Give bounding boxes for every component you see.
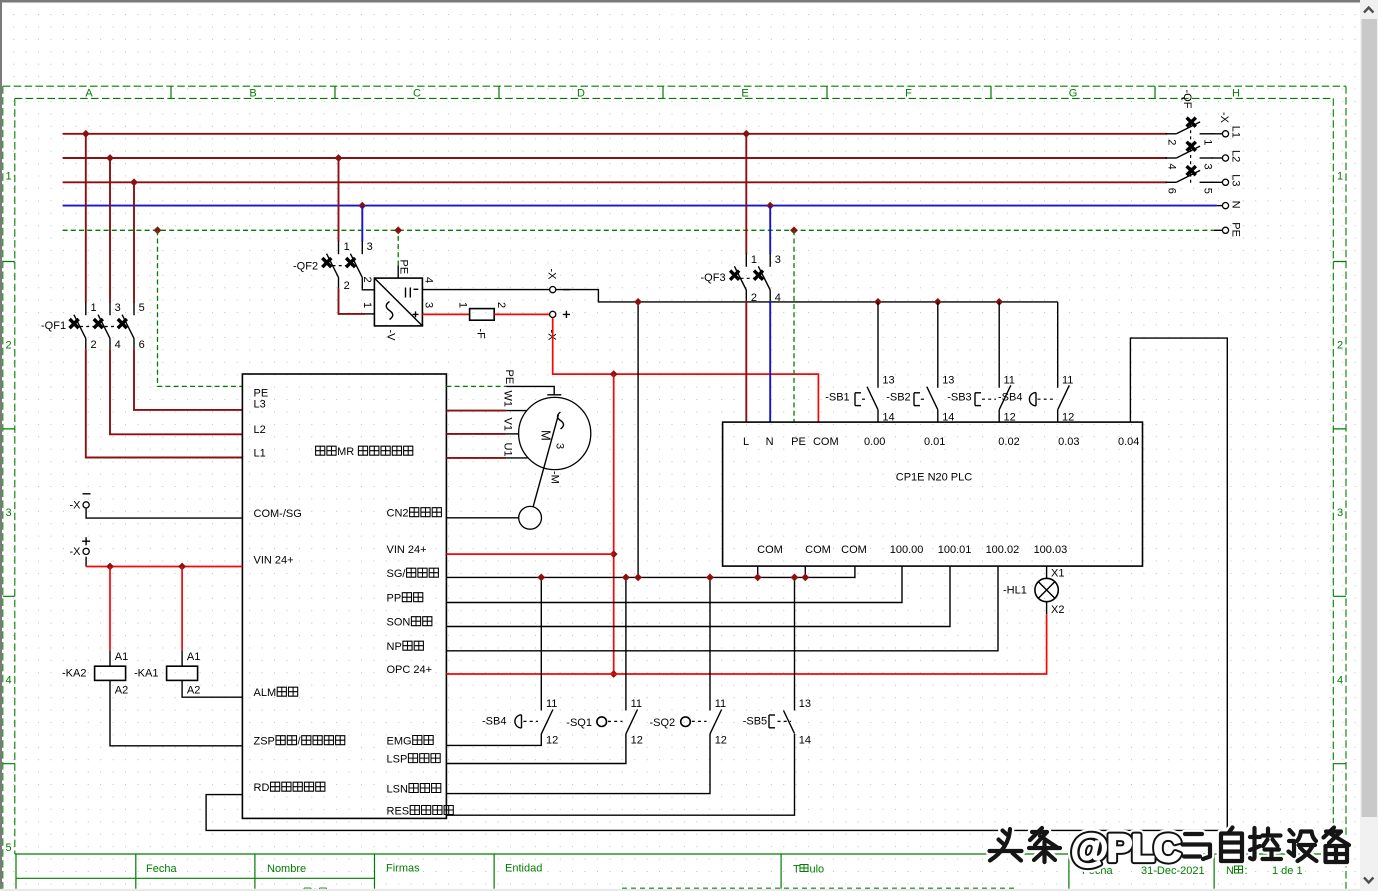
junction bus N / QF3 — [766, 202, 774, 210]
wire servo V1 — [446, 433, 506, 435]
watermark — [990, 828, 1350, 863]
svg-text:3: 3 — [554, 443, 566, 449]
svg-text:LSN: LSN — [387, 783, 408, 795]
svg-text:11: 11 — [546, 698, 557, 710]
svg-text:100.02: 100.02 — [986, 544, 1020, 556]
svg-text:A2: A2 — [115, 685, 128, 697]
svg-text:12: 12 — [546, 735, 558, 747]
svg-text:L2: L2 — [254, 424, 266, 436]
relay coil KA1 — [167, 666, 198, 680]
svg-text:L1: L1 — [1230, 126, 1242, 138]
junction row/SB1 — [874, 298, 882, 306]
junction SG/COM2 — [801, 574, 809, 582]
svg-text:ALM: ALM — [254, 687, 277, 699]
wire QF2 pole2 to V pin2 — [362, 288, 374, 290]
wire PE to servo — [158, 230, 243, 386]
svg-text:ulo: ulo — [810, 864, 825, 876]
V box AC symbol — [386, 302, 393, 320]
svg-text:SG/: SG/ — [387, 568, 407, 580]
main switch QF pole 1 — [1166, 118, 1213, 134]
svg-text:-SB5: -SB5 — [743, 716, 767, 728]
svg-text:X1: X1 — [1051, 568, 1064, 580]
breaker QF2 pole 1 wire top — [338, 158, 340, 242]
window bottom edge — [0, 889, 1360, 891]
column divider ticks — [171, 86, 1155, 98]
junction bus PE drop PLC — [790, 226, 798, 234]
svg-text:-QF2: -QF2 — [293, 261, 318, 273]
wire X minus to SB row — [556, 290, 1058, 302]
junction bus L3 / QF1 — [130, 178, 138, 186]
svg-text:2: 2 — [91, 339, 97, 351]
junction X plus riser — [610, 370, 618, 378]
wire SG row — [446, 566, 855, 577]
junction SG/SQ2 — [706, 574, 714, 582]
scrollbar thumb — [1362, 19, 1378, 817]
svg-text:4: 4 — [6, 675, 12, 687]
svg-text:13: 13 — [882, 375, 894, 387]
svg-text:V1: V1 — [502, 418, 514, 431]
wire servo PE to motor — [446, 385, 506, 387]
breaker QF1 pole 3 — [118, 302, 134, 349]
svg-text:COM: COM — [805, 544, 831, 556]
wire LSP row — [446, 734, 626, 764]
lamp HL1 stub X1 — [1046, 566, 1048, 578]
svg-text:-X: -X — [545, 330, 557, 342]
svg-text:3: 3 — [115, 302, 121, 314]
svg-text:@PLC: @PLC — [1071, 828, 1181, 870]
svg-text:W1: W1 — [502, 391, 514, 408]
row divider ticks right — [1333, 262, 1346, 764]
svg-text:0.02: 0.02 — [998, 436, 1019, 448]
svg-text:5: 5 — [1201, 188, 1213, 194]
wire PP row — [446, 566, 902, 602]
svg-text:1: 1 — [344, 241, 350, 253]
junction X row / riser — [634, 298, 642, 306]
svg-text:2: 2 — [6, 340, 12, 352]
wire SON row — [446, 566, 950, 626]
svg-text:L3: L3 — [1230, 174, 1242, 186]
svg-text:C: C — [413, 88, 421, 100]
svg-text:0.01: 0.01 — [924, 436, 945, 448]
red riser 24V — [613, 374, 615, 674]
svg-text:Entidad: Entidad — [505, 863, 542, 875]
svg-text:A2: A2 — [187, 685, 200, 697]
junction VIN/KA2 — [106, 563, 114, 571]
svg-text:N: N — [1230, 201, 1242, 209]
servo drive box — [242, 374, 446, 818]
svg-text:2: 2 — [1337, 340, 1343, 352]
svg-text:11: 11 — [631, 698, 642, 710]
bus N — [63, 205, 1217, 207]
wire X to COM-/SG — [86, 509, 242, 518]
svg-text:6: 6 — [1166, 188, 1178, 194]
window left border — [0, 0, 2, 891]
terminal X L1 — [1222, 131, 1228, 137]
svg-text:L: L — [743, 436, 749, 448]
svg-text:14: 14 — [799, 735, 811, 747]
junction VIN/KA1 — [178, 563, 186, 571]
svg-text:1: 1 — [456, 302, 468, 308]
svg-text:3: 3 — [6, 507, 12, 519]
wire servo U1 — [446, 457, 506, 459]
svg-text:VIN 24+: VIN 24+ — [387, 544, 427, 556]
svg-text:SON: SON — [387, 617, 411, 629]
breaker QF1 pole 2 — [94, 302, 110, 349]
svg-text:PE: PE — [1230, 222, 1242, 237]
junction bus L1 / QF1 — [82, 130, 90, 138]
junction riser/OPC — [610, 670, 618, 678]
svg-text:A1: A1 — [115, 651, 128, 663]
QF3 linkage — [741, 277, 765, 279]
svg-text:1: 1 — [91, 302, 97, 314]
svg-text:-X: -X — [70, 546, 82, 558]
svg-text:T: T — [793, 864, 800, 876]
svg-text:4: 4 — [422, 277, 434, 283]
svg-text:4: 4 — [1337, 675, 1343, 687]
svg-text:3: 3 — [1201, 164, 1213, 170]
motor PE bar — [547, 394, 561, 396]
junction SG / riser — [634, 574, 642, 582]
wire EMG row — [446, 734, 541, 746]
breaker QF1 pole 1 wire top — [85, 134, 87, 302]
svg-text:100.01: 100.01 — [938, 544, 972, 556]
svg-text:100.03: 100.03 — [1034, 544, 1068, 556]
junction riser/VIN — [610, 550, 618, 558]
svg-text:L3: L3 — [254, 399, 266, 411]
main switch QF pole 2 — [1166, 142, 1213, 158]
wire to KA1 coil — [181, 567, 183, 651]
svg-text:-SB3: -SB3 — [947, 392, 971, 404]
svg-text:D: D — [577, 88, 585, 100]
svg-text:X2: X2 — [1051, 604, 1064, 616]
plus sign left — [82, 537, 90, 545]
svg-text:2: 2 — [751, 292, 757, 304]
scrollbar up arrow — [1364, 8, 1373, 13]
wire X plus to PLC COM — [553, 318, 819, 423]
wire servo W1 — [446, 410, 506, 412]
svg-text:Nombre: Nombre — [267, 863, 306, 875]
svg-text:-SB1: -SB1 — [825, 392, 849, 404]
power supply V box — [374, 278, 422, 326]
svg-text:-V: -V — [385, 330, 397, 342]
wire V pin4 to terminal X minus — [422, 289, 550, 291]
terminal X plus left — [83, 548, 89, 554]
PLC COM stub 2 — [804, 566, 806, 577]
svg-text:EMG: EMG — [387, 735, 412, 747]
svg-text:-QF1: -QF1 — [41, 320, 66, 332]
encoder circle — [519, 506, 542, 529]
svg-text:0.04: 0.04 — [1118, 436, 1139, 448]
title block lines — [15, 854, 1346, 878]
svg-text:Fecha: Fecha — [146, 863, 177, 875]
wire KA2 to ZSP — [110, 680, 242, 745]
svg-text:N: N — [766, 436, 774, 448]
breaker QF1 pole 1 — [70, 302, 86, 349]
svg-text:F: F — [905, 88, 912, 100]
terminal X minus — [550, 287, 556, 293]
svg-text:MR: MR — [337, 446, 354, 458]
wire PLC 0.04 loop to servo RD — [206, 338, 1227, 830]
svg-text:COM: COM — [841, 544, 867, 556]
SG drop to SQ1 — [625, 577, 627, 710]
junction bus L2 / QF2 — [335, 154, 343, 162]
svg-text:1: 1 — [6, 171, 12, 183]
svg-text::: : — [1245, 865, 1248, 877]
bus PE — [63, 229, 1214, 231]
svg-text:U1: U1 — [502, 443, 514, 457]
svg-text:ZSP: ZSP — [254, 736, 275, 748]
svg-text:-SB2: -SB2 — [886, 392, 910, 404]
svg-text:13: 13 — [799, 698, 811, 710]
junction bus N / QF2 — [358, 202, 366, 210]
wire QF1 pole1 to servo L1 — [86, 349, 243, 457]
svg-text:-SQ1: -SQ1 — [566, 717, 592, 729]
svg-text:5: 5 — [6, 842, 12, 854]
junction SG/SQ1 — [622, 574, 630, 582]
riser X- to SG row — [637, 302, 639, 578]
svg-text:2: 2 — [495, 302, 507, 308]
V box DC symbol — [405, 288, 407, 298]
svg-text:1: 1 — [1201, 139, 1213, 145]
junction row/SB3 — [995, 298, 1003, 306]
wire KA1 to ALM — [182, 680, 242, 697]
breaker QF3 pole 2 wire top — [769, 206, 771, 255]
svg-text:N: N — [1226, 865, 1234, 877]
svg-text:13: 13 — [942, 375, 954, 387]
fuse F — [422, 313, 469, 315]
svg-text:PP: PP — [387, 593, 402, 605]
junction bus L1 / QF3 — [742, 130, 750, 138]
V box minus — [414, 288, 419, 290]
svg-text:-SB4: -SB4 — [482, 716, 506, 728]
wire X plus to VIN24 — [85, 557, 87, 567]
svg-text:-M: -M — [549, 471, 561, 484]
QF1 linkage — [80, 326, 128, 328]
wire QF2 pole1 to V pin1 — [339, 288, 366, 314]
breaker QF3 pole 1 — [730, 253, 746, 300]
wire PE to PLC — [793, 230, 795, 422]
motor label tilde — [558, 412, 564, 429]
svg-text:E: E — [741, 88, 748, 100]
svg-text:COM: COM — [813, 436, 839, 448]
svg-text:-SB4: -SB4 — [998, 392, 1022, 404]
svg-text:L1: L1 — [254, 447, 266, 459]
junction row/SB2 — [934, 298, 942, 306]
svg-text:12: 12 — [715, 735, 727, 747]
breaker QF1 pole 3 wire top — [133, 182, 135, 302]
svg-text:100.00: 100.00 — [890, 544, 924, 556]
svg-text:NP: NP — [387, 641, 402, 653]
svg-text:RD: RD — [254, 782, 270, 794]
svg-text:3: 3 — [422, 302, 434, 308]
svg-text:2: 2 — [344, 280, 350, 292]
svg-text:VIN 24+: VIN 24+ — [254, 554, 294, 566]
wire servo CN2 to encoder — [446, 517, 518, 519]
wire LSN row — [446, 734, 710, 794]
svg-text:11: 11 — [1062, 375, 1073, 387]
breaker QF3 pole 2 — [754, 253, 770, 300]
junction bus PE / V — [394, 226, 402, 234]
svg-text:4: 4 — [115, 339, 121, 351]
svg-text:5: 5 — [139, 302, 145, 314]
svg-text:0.03: 0.03 — [1058, 436, 1079, 448]
wire NP row — [446, 566, 998, 651]
svg-text:L2: L2 — [1230, 150, 1242, 162]
svg-text:PE: PE — [791, 436, 806, 448]
QF2 linkage — [333, 265, 357, 267]
lamp HL1 — [1035, 578, 1058, 601]
wire RES row — [446, 734, 794, 815]
V box PE stub — [397, 266, 399, 279]
svg-text:11: 11 — [715, 698, 726, 710]
svg-text:3: 3 — [367, 241, 373, 253]
bus L1 — [63, 133, 1167, 135]
SG drop to SB5 — [794, 577, 796, 710]
svg-text:4: 4 — [775, 292, 781, 304]
bus L3 — [63, 181, 1167, 183]
svg-text:6: 6 — [139, 339, 145, 351]
scrollbar down arrow — [1364, 878, 1373, 883]
breaker QF1 pole 2 wire top — [109, 158, 111, 302]
motor M circle — [519, 397, 591, 469]
svg-text:1: 1 — [361, 302, 373, 308]
svg-text:PE: PE — [503, 370, 515, 385]
svg-text:LSP: LSP — [387, 753, 408, 765]
svg-text:OPC 24+: OPC 24+ — [387, 664, 433, 676]
svg-text:B: B — [249, 88, 256, 100]
svg-text:12: 12 — [631, 735, 643, 747]
row divider ticks left — [3, 262, 15, 764]
breaker QF2 pole 1 — [322, 241, 338, 288]
pushbutton SB2 NO to PLC 0.01 — [937, 302, 939, 422]
lamp HL1 stub X2 — [1046, 602, 1048, 614]
svg-text:-SQ2: -SQ2 — [650, 717, 676, 729]
pushbutton SB4 NC to PLC 0.03 — [1057, 302, 1059, 422]
svg-text:4: 4 — [1166, 164, 1178, 170]
motor shaft line — [530, 415, 558, 518]
svg-text:1 de 1: 1 de 1 — [1272, 865, 1303, 877]
svg-text:CN2: CN2 — [387, 508, 409, 520]
terminal N — [1217, 205, 1223, 207]
minus sign left — [83, 493, 91, 495]
junction SG/COM1 — [754, 574, 762, 582]
junction bus L2 / QF1 — [106, 154, 114, 162]
breaker QF2 pole 2 wire top — [361, 206, 363, 242]
svg-text:-F: -F — [474, 329, 486, 340]
junction bus PE drop left — [154, 226, 162, 234]
junction SG/SB4 — [537, 574, 545, 582]
main switch linkage — [1190, 124, 1192, 183]
wire QF3 pole2 to PLC N — [769, 301, 771, 422]
svg-text:11: 11 — [1004, 375, 1015, 387]
wire VIN 24+ row — [446, 553, 613, 555]
vertical scrollbar track — [1360, 0, 1378, 891]
svg-text:COM: COM — [757, 544, 783, 556]
V box plus — [413, 311, 419, 317]
svg-text:-HL1: -HL1 — [1003, 585, 1027, 597]
terminal X L3 — [1222, 179, 1228, 185]
svg-text:-KA1: -KA1 — [134, 668, 158, 680]
svg-text:CP1E N20 PLC: CP1E N20 PLC — [896, 472, 972, 484]
window top border — [0, 0, 1360, 3]
servo title — [316, 446, 325, 455]
wire QF3 pole1 to PLC L — [745, 301, 747, 422]
terminal X plus — [550, 311, 556, 317]
wire to KA2 coil — [109, 567, 111, 651]
svg-text:RES: RES — [387, 805, 410, 817]
title block bottom fragments — [622, 887, 1015, 889]
svg-text:-KA2: -KA2 — [62, 668, 86, 680]
svg-text:H: H — [1232, 88, 1240, 100]
plus sign — [563, 311, 570, 318]
svg-text:PE: PE — [398, 260, 410, 275]
svg-text:G: G — [1069, 88, 1078, 100]
pushbutton SB1 NO to PLC 0.00 — [877, 302, 879, 422]
SB4 NC contact — [541, 710, 553, 734]
svg-text:1: 1 — [1337, 171, 1343, 183]
minus sign — [563, 289, 570, 291]
svg-text:-QF: -QF — [1181, 90, 1193, 109]
svg-text:3: 3 — [775, 254, 781, 266]
wire QF1 pole3 to servo L3 — [134, 349, 242, 410]
PLC box CP1E N20 — [723, 422, 1143, 566]
terminal X minus left — [83, 502, 89, 508]
svg-text:A1: A1 — [187, 651, 200, 663]
svg-text:-X: -X — [545, 269, 557, 281]
breaker QF2 pole 2 — [346, 241, 362, 288]
svg-text:-X: -X — [70, 500, 82, 512]
svg-text:0.00: 0.00 — [864, 436, 885, 448]
svg-text:2: 2 — [361, 277, 373, 283]
PLC COM stub 1 — [757, 566, 759, 577]
pushbutton SB3 NC to PLC 0.02 — [998, 302, 1000, 422]
terminal PE — [1214, 229, 1223, 231]
svg-text:-X: -X — [1218, 112, 1230, 124]
svg-text:M: M — [539, 430, 554, 441]
breaker QF3 pole 1 wire top — [745, 134, 747, 254]
svg-text:3: 3 — [1337, 507, 1343, 519]
relay coil KA2 — [95, 666, 126, 680]
SG drop to SB4 — [540, 577, 542, 710]
svg-text:-QF3: -QF3 — [701, 272, 726, 284]
wire OPC row to lamp — [446, 614, 1046, 674]
junction SG/SB5 — [791, 574, 799, 582]
svg-text:2: 2 — [1166, 139, 1178, 145]
terminal X L2 — [1222, 155, 1228, 161]
SG drop to SQ2 — [709, 577, 711, 710]
svg-text:COM-/SG: COM-/SG — [254, 508, 302, 520]
svg-text:Firmas: Firmas — [386, 863, 420, 875]
svg-text:A: A — [85, 88, 93, 100]
main switch QF pole 3 — [1166, 166, 1213, 182]
svg-text:1: 1 — [751, 254, 757, 266]
wire QF1 pole2 to servo L2 — [110, 349, 242, 434]
bus L2 — [63, 157, 1167, 159]
